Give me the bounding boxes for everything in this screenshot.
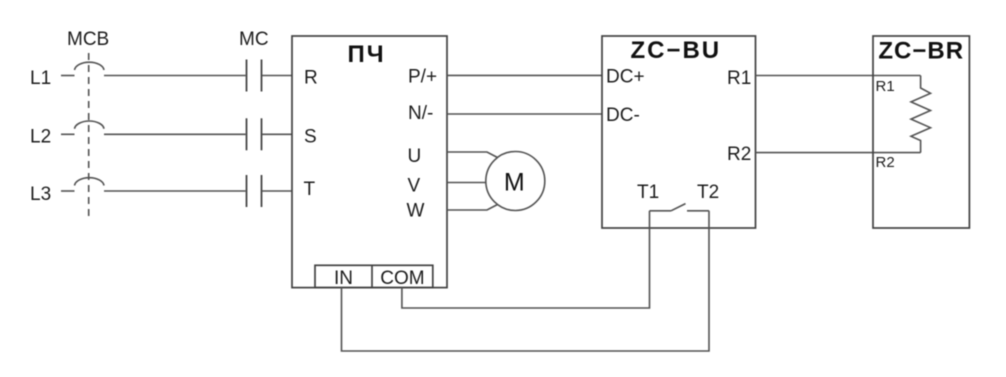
svg-text:R1: R1 — [876, 78, 895, 95]
svg-text:N/-: N/- — [408, 103, 433, 124]
svg-text:DC-: DC- — [606, 105, 640, 126]
svg-text:P/+: P/+ — [408, 67, 437, 88]
svg-text:T1: T1 — [637, 182, 659, 203]
svg-text:DC+: DC+ — [606, 66, 645, 87]
svg-text:T: T — [304, 179, 316, 200]
svg-text:V: V — [408, 176, 421, 197]
svg-text:R2: R2 — [876, 154, 895, 171]
svg-text:L1: L1 — [30, 68, 51, 89]
svg-text:L2: L2 — [30, 126, 51, 147]
svg-text:COM: COM — [380, 268, 424, 289]
svg-text:T2: T2 — [697, 182, 719, 203]
svg-text:R: R — [304, 68, 318, 89]
svg-text:IN: IN — [334, 268, 353, 289]
svg-text:M: M — [504, 169, 525, 197]
svg-text:MCB: MCB — [67, 29, 109, 50]
svg-text:ZC−BU: ZC−BU — [630, 37, 721, 64]
svg-text:ПЧ: ПЧ — [347, 41, 385, 68]
svg-text:MC: MC — [239, 29, 269, 50]
svg-text:U: U — [408, 146, 422, 167]
svg-text:S: S — [304, 127, 317, 148]
svg-text:L3: L3 — [30, 184, 51, 205]
svg-text:R2: R2 — [727, 144, 751, 165]
svg-text:R1: R1 — [727, 68, 751, 89]
svg-text:ZC−BR: ZC−BR — [878, 38, 964, 65]
svg-text:W: W — [407, 201, 425, 222]
